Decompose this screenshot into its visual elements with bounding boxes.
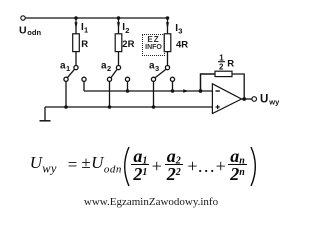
current arrow I3 (166, 22, 169, 29)
svg-text:1: 1 (84, 25, 88, 34)
ground symbol (40, 120, 51, 122)
svg-text:R: R (81, 39, 88, 50)
svg-text:1: 1 (66, 64, 70, 73)
svg-text:2R: 2R (122, 39, 134, 50)
switch a2 pole (116, 66, 120, 70)
node output junction (242, 97, 246, 101)
op-amp plus sign (216, 106, 220, 108)
switch a2 right contact (125, 77, 129, 81)
wire a2 right to summing bus (127, 81, 129, 91)
node a1 left on ground bus (64, 105, 68, 109)
terminal Uodn (21, 16, 25, 20)
wire output (242, 98, 252, 100)
node rail-R2 (117, 16, 121, 20)
svg-text:R: R (227, 58, 234, 69)
node rail-R1 (74, 16, 78, 20)
node rail-R3 (166, 16, 170, 20)
node a3 left on ground bus (152, 105, 156, 109)
switch a1 right contact (82, 77, 86, 81)
svg-text:2: 2 (219, 62, 224, 71)
switch a1 left contact (64, 77, 68, 81)
node feedback on bus (199, 89, 203, 93)
wire R3 top lead (167, 18, 169, 34)
svg-text:3: 3 (178, 27, 182, 36)
ground stub (44, 107, 46, 121)
svg-text:2: 2 (125, 26, 129, 35)
svg-text:odn: odn (27, 28, 41, 37)
footer site name (2, 196, 300, 208)
wire summing bus (84, 90, 213, 92)
node a3 right on bus (171, 89, 175, 93)
wire a3 left to ground bus (153, 81, 155, 107)
current arrow on summing bus (183, 89, 188, 93)
wire R3 bottom lead (167, 52, 169, 66)
op-amp U1 (212, 84, 241, 114)
svg-text:U: U (19, 24, 27, 36)
wire R2 bottom lead (118, 52, 120, 66)
resistor feedback R/2 (215, 71, 232, 76)
wire R1 top lead (75, 18, 77, 34)
switch a2 left contact (107, 77, 111, 81)
resistor R3 (164, 34, 171, 52)
wire ground bus (45, 106, 213, 108)
current arrow I1 (75, 22, 78, 29)
wire R1 bottom lead (75, 52, 77, 66)
wire a2 left to ground bus (109, 81, 111, 107)
switch a1 lever (67, 69, 74, 78)
resistor R1 (73, 34, 80, 52)
wire a3 right to summing bus (172, 81, 174, 91)
wire R2 top lead (118, 18, 120, 34)
current arrow I2 (117, 22, 120, 29)
switch a3 right contact (170, 77, 174, 81)
wire a1 right to summing bus (83, 81, 85, 91)
wire top rail (25, 17, 167, 19)
feedback wire right (232, 74, 244, 99)
wire a1 left to ground bus (65, 81, 67, 107)
formula Uwy = ±Uodn ( a1/2^1 + a2/2^2 + ... + an/2^n ) (0, 145, 298, 187)
switch a3 pole (165, 66, 169, 70)
resistor R2 (115, 34, 122, 52)
svg-text:2: 2 (107, 64, 111, 73)
svg-text:1: 1 (219, 53, 224, 62)
switch a1 pole (74, 66, 78, 70)
switch a3 lever (155, 69, 166, 78)
switch a2 lever (111, 69, 117, 78)
svg-text:wy: wy (268, 98, 280, 107)
node a2 right on bus (126, 89, 130, 93)
svg-text:4R: 4R (176, 40, 188, 51)
svg-text:3: 3 (155, 64, 159, 73)
node a2 left on ground bus (108, 105, 112, 109)
op-amp minus sign (216, 90, 220, 92)
watermark EZ INFO (142, 34, 165, 56)
switch a3 left contact (151, 77, 155, 81)
feedback wire left (201, 74, 216, 91)
svg-text:U: U (260, 94, 268, 106)
terminal Uwy (252, 97, 257, 102)
